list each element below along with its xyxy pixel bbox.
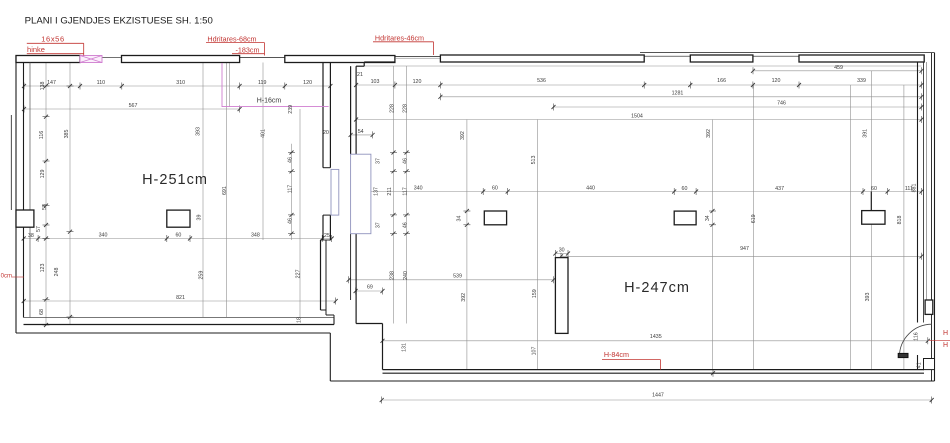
svg-text:20: 20 bbox=[323, 130, 329, 136]
svg-text:34: 34 bbox=[705, 215, 711, 221]
svg-text:54: 54 bbox=[358, 129, 364, 135]
svg-text:110: 110 bbox=[97, 80, 105, 86]
svg-text:37: 37 bbox=[375, 222, 381, 228]
svg-text:691: 691 bbox=[222, 186, 228, 195]
svg-text:567: 567 bbox=[129, 103, 138, 109]
svg-text:1447: 1447 bbox=[652, 393, 664, 399]
svg-text:238: 238 bbox=[390, 271, 396, 280]
window symbol 16x56 (magenta) bbox=[80, 56, 102, 63]
svg-text:818: 818 bbox=[897, 216, 903, 225]
door arc (right wall) bbox=[899, 324, 932, 356]
svg-text:117: 117 bbox=[402, 187, 408, 195]
column stub line bbox=[870, 192, 872, 211]
svg-text:259: 259 bbox=[199, 271, 205, 280]
door leaf bbox=[898, 353, 908, 357]
svg-text:401: 401 bbox=[261, 129, 267, 138]
svg-text:228: 228 bbox=[402, 104, 408, 113]
svg-text:947: 947 bbox=[740, 246, 749, 252]
svg-text:PLANI I GJENDJES EKZISTUESE SH: PLANI I GJENDJES EKZISTUESE SH. 1:50 bbox=[25, 16, 213, 27]
svg-text:392: 392 bbox=[461, 293, 467, 302]
svg-text:228: 228 bbox=[390, 104, 396, 113]
svg-text:211: 211 bbox=[387, 187, 393, 195]
svg-text:227: 227 bbox=[296, 269, 302, 278]
svg-text:881: 881 bbox=[912, 184, 918, 193]
top wall with window openings bbox=[16, 56, 80, 63]
svg-text:41: 41 bbox=[916, 362, 922, 368]
svg-text:25: 25 bbox=[324, 233, 330, 239]
svg-text:46: 46 bbox=[402, 222, 408, 228]
dimension grid lines bbox=[24, 85, 330, 87]
column 2 right room bbox=[674, 211, 696, 225]
svg-text:821: 821 bbox=[176, 295, 185, 301]
svg-text:746: 746 bbox=[777, 101, 786, 107]
svg-text:116: 116 bbox=[913, 332, 919, 340]
svg-text:619: 619 bbox=[751, 214, 757, 223]
svg-text:H-247cm: H-247cm bbox=[624, 280, 690, 296]
svg-text:137: 137 bbox=[374, 187, 380, 196]
svg-text:131: 131 bbox=[402, 343, 408, 352]
svg-text:60: 60 bbox=[492, 186, 498, 192]
svg-text:30: 30 bbox=[559, 248, 565, 254]
svg-text:37: 37 bbox=[375, 158, 381, 164]
svg-text:385: 385 bbox=[64, 130, 70, 139]
column left room bbox=[167, 210, 190, 227]
svg-text:39: 39 bbox=[197, 215, 203, 221]
svg-text:117: 117 bbox=[288, 185, 294, 193]
svg-text:69: 69 bbox=[367, 285, 373, 291]
right room left wall bbox=[364, 61, 395, 63]
svg-text:-183cm: -183cm bbox=[236, 45, 260, 54]
svg-text:340: 340 bbox=[99, 233, 108, 239]
svg-text:H: H bbox=[943, 342, 948, 349]
svg-text:21: 21 bbox=[357, 72, 363, 78]
svg-text:310: 310 bbox=[176, 80, 185, 86]
svg-text:120: 120 bbox=[772, 78, 781, 84]
svg-text:393: 393 bbox=[865, 293, 871, 302]
svg-text:120: 120 bbox=[413, 79, 422, 85]
svg-text:H-251cm: H-251cm bbox=[142, 172, 208, 188]
svg-text:H: H bbox=[943, 330, 948, 337]
svg-text:536: 536 bbox=[537, 78, 546, 84]
svg-text:339: 339 bbox=[857, 78, 866, 84]
svg-text:hinke: hinke bbox=[27, 45, 45, 54]
right wall bbox=[917, 62, 919, 323]
svg-text:393: 393 bbox=[196, 127, 202, 136]
column 3 right room bbox=[862, 211, 885, 225]
svg-text:16x56: 16x56 bbox=[41, 35, 64, 44]
svg-text:120: 120 bbox=[303, 80, 312, 86]
svg-text:H-84cm: H-84cm bbox=[604, 350, 629, 359]
outer boundary walls bbox=[15, 56, 17, 334]
svg-text:60: 60 bbox=[682, 186, 688, 192]
svg-text:539: 539 bbox=[453, 274, 462, 280]
svg-text:H-16cm: H-16cm bbox=[257, 98, 282, 105]
svg-text:248: 248 bbox=[54, 268, 60, 277]
svg-text:Hdritares-46cm: Hdritares-46cm bbox=[375, 33, 424, 42]
svg-text:0cm: 0cm bbox=[1, 274, 12, 280]
svg-text:147: 147 bbox=[47, 80, 56, 86]
svg-text:68: 68 bbox=[39, 309, 45, 315]
right room bottom wall bbox=[383, 369, 925, 371]
svg-text:103: 103 bbox=[371, 79, 380, 85]
svg-text:239: 239 bbox=[288, 105, 294, 114]
svg-text:18: 18 bbox=[297, 317, 303, 323]
passage opening (blue rect) bbox=[351, 154, 371, 234]
svg-text:391: 391 bbox=[862, 129, 868, 138]
svg-text:240: 240 bbox=[403, 271, 409, 280]
svg-text:166: 166 bbox=[717, 78, 726, 84]
svg-text:129: 129 bbox=[40, 170, 46, 179]
svg-text:60: 60 bbox=[175, 233, 181, 239]
svg-text:119: 119 bbox=[258, 80, 266, 86]
svg-text:392: 392 bbox=[706, 129, 712, 138]
wall pier (tall) bbox=[555, 258, 568, 334]
svg-text:392: 392 bbox=[460, 131, 466, 140]
svg-text:57: 57 bbox=[36, 226, 42, 232]
svg-text:46: 46 bbox=[288, 157, 294, 163]
svg-text:440: 440 bbox=[586, 186, 595, 192]
svg-text:46: 46 bbox=[402, 158, 408, 164]
svg-text:1504: 1504 bbox=[631, 114, 643, 120]
svg-text:437: 437 bbox=[775, 186, 784, 192]
svg-text:58: 58 bbox=[42, 204, 48, 210]
pilaster left wall bbox=[16, 210, 34, 227]
svg-text:34: 34 bbox=[457, 216, 463, 222]
svg-text:116: 116 bbox=[39, 131, 45, 139]
column 1 right room bbox=[484, 211, 506, 225]
svg-text:459: 459 bbox=[834, 65, 843, 71]
svg-text:107: 107 bbox=[532, 347, 538, 356]
dimension ticks bbox=[22, 84, 26, 88]
passage door leaf (blue) bbox=[331, 169, 339, 215]
svg-text:1435: 1435 bbox=[650, 334, 662, 340]
svg-text:60: 60 bbox=[871, 186, 877, 192]
svg-text:1281: 1281 bbox=[672, 91, 684, 97]
magenta leader H-16cm bbox=[222, 63, 329, 107]
svg-text:159: 159 bbox=[532, 289, 538, 298]
svg-text:340: 340 bbox=[414, 186, 423, 192]
svg-text:123: 123 bbox=[40, 264, 46, 273]
left room right wall / passage jamb bbox=[322, 63, 324, 168]
svg-text:513: 513 bbox=[531, 156, 537, 165]
svg-text:138: 138 bbox=[40, 82, 46, 91]
svg-text:46: 46 bbox=[288, 218, 294, 224]
niche right wall bbox=[925, 300, 933, 314]
svg-text:38: 38 bbox=[28, 233, 34, 239]
left room walls bbox=[23, 63, 25, 318]
svg-text:Hdritares-68cm: Hdritares-68cm bbox=[207, 34, 256, 43]
svg-text:348: 348 bbox=[251, 233, 260, 239]
